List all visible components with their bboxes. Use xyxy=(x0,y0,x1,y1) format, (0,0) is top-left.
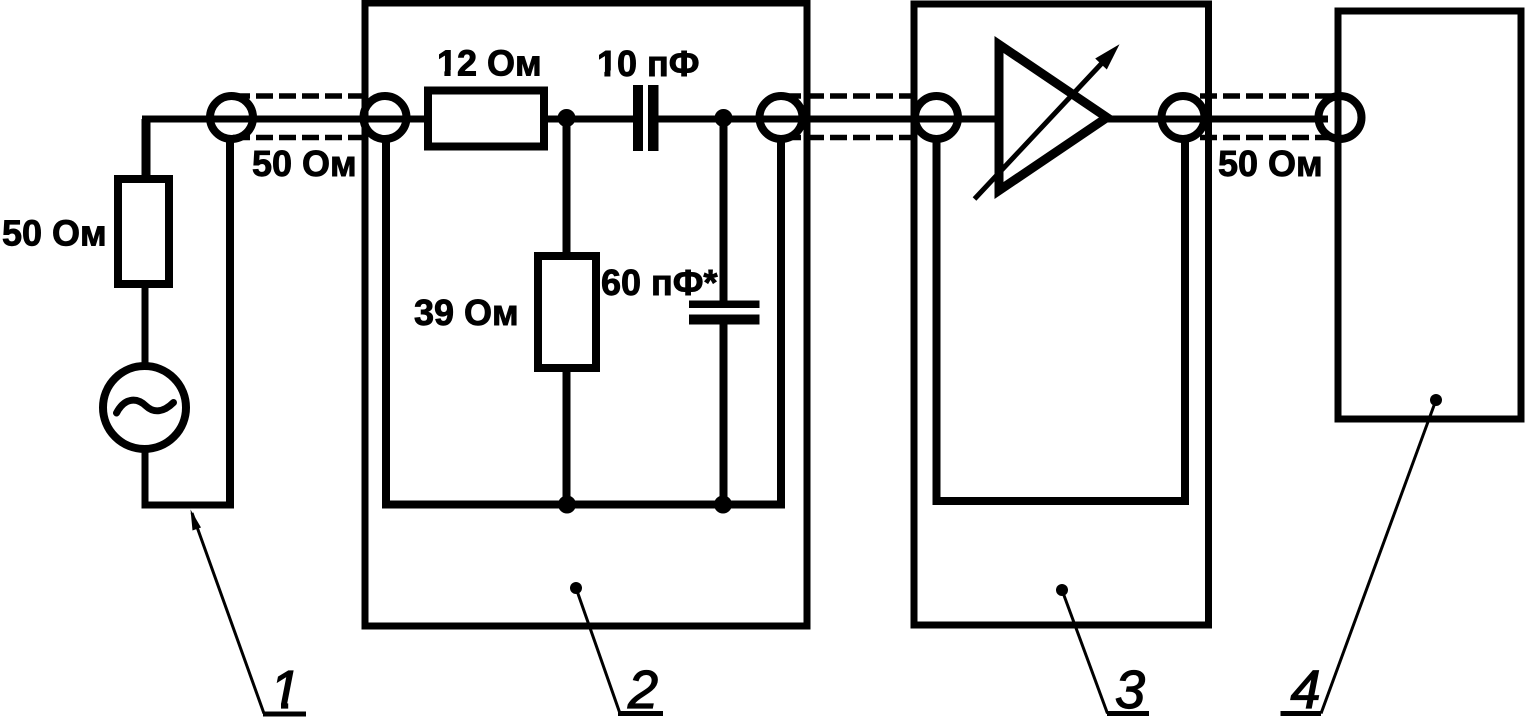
svg-text:3: 3 xyxy=(1115,660,1145,717)
svg-text:50 Ом: 50 Ом xyxy=(1218,143,1323,184)
svg-text:50 Ом: 50 Ом xyxy=(2,213,107,254)
svg-text:39 Ом: 39 Ом xyxy=(414,292,519,333)
svg-text:50 Ом: 50 Ом xyxy=(252,143,357,184)
svg-text:12 Ом: 12 Ом xyxy=(437,43,542,84)
svg-text:10 пФ: 10 пФ xyxy=(597,43,700,84)
svg-text:60 пФ*: 60 пФ* xyxy=(601,262,718,303)
svg-text:2: 2 xyxy=(627,660,658,717)
svg-text:4: 4 xyxy=(1290,660,1320,717)
